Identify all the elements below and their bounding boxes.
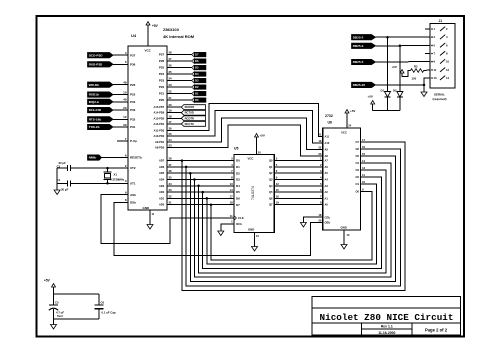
wire XT2 [71,167,129,169]
svg-text:RCRXD: RCRXD [185,105,195,109]
svg-text:DB25-2: DB25-2 [353,35,364,39]
svg-text:2732: 2732 [325,114,333,118]
svg-text:11: 11 [362,173,365,177]
svg-text:U5: U5 [234,147,239,151]
svg-text:+5V: +5V [260,134,265,138]
svg-text:P-Up: P-Up [130,139,137,143]
net flag D5 [192,65,195,70]
J1 pin 7 / pin 8 [431,53,433,55]
svg-text:17: 17 [169,120,173,124]
net flag IRQ2-b [88,99,114,104]
svg-text:O3: O3 [356,168,360,172]
svg-text:31: 31 [169,201,173,205]
net flag D4 [192,72,195,77]
wire AD6 U4 pin 37 to U5 D1 pin 4 [167,166,234,168]
ground for U4 [147,225,153,230]
wire AD2 U4 pin 33 to U5 D5 pin 14 [167,191,234,193]
svg-text:A10: A10 [325,141,330,145]
svg-text:P21: P21 [159,92,165,96]
wire A11 bus U4 pin 36 to U6 pin 21 [167,104,323,137]
svg-text:A11: A11 [325,134,330,138]
svg-text:O6: O6 [356,147,360,151]
J1 pin 9 / pin 10 [431,61,433,63]
svg-text:7.3728MHz: 7.3728MHz [110,178,125,182]
svg-text:D1: D1 [195,92,199,96]
svg-text:C6: C6 [101,300,105,304]
net flag D3 [192,78,195,83]
svg-text:20: 20 [169,103,173,107]
connector J1 body [430,23,455,87]
wire U5 Q2 pin 6 to U6 A5 pin 3 [274,172,323,174]
svg-text:D4: D4 [195,72,199,76]
svg-text:A15-PD7: A15-PD7 [154,105,165,109]
svg-text:U6: U6 [328,121,333,125]
wire U4 P23 pin 24 to flag D3 [167,80,192,82]
svg-text:+5V: +5V [44,279,51,283]
wire U4 A15-PD7 pin 20 to flag RCRXD [167,106,181,108]
svg-text:17: 17 [362,138,366,142]
net flag DB25-2 [352,35,376,40]
svg-text:10: 10 [362,180,366,184]
wire +5V to R2 [402,71,411,77]
wire AD7 U4 pin 38 to U5 D0 pin 3 [167,160,234,162]
net flag D2 [192,85,195,90]
net flag DB25-3 [352,43,376,48]
svg-text:GND: GND [248,228,254,232]
svg-text:A7: A7 [325,159,329,163]
svg-text:22: 22 [318,145,322,149]
wire U4 P20 pin 21 to flag D0 [167,99,192,101]
svg-text:J1: J1 [439,19,443,23]
svg-text:21: 21 [318,132,322,136]
CPU U4 Z863103 body [128,46,167,210]
svg-text:33: 33 [169,188,173,192]
svg-text:Page 2 of 2: Page 2 of 2 [425,328,448,333]
wire AD4 U4 pin 35 to U5 D3 pin 8 [167,179,234,181]
wire U5 Q1 pin 5 to U6 A6 pin 2 [274,166,323,168]
net flag TXD-2b wire to U4 pin 30 [113,126,128,128]
svg-text:14: 14 [230,188,234,192]
svg-text:C5: C5 [55,300,59,304]
wire U5 Q4 pin 12 to U6 A3 pin 5 [274,185,323,187]
capacitor C4 30pF [66,180,68,186]
capacitor C3 30pF [66,165,68,171]
ground for U6 [341,245,347,250]
svg-text:A8: A8 [325,154,329,158]
svg-text:Nicolet Z80 NICE Circuit: Nicolet Z80 NICE Circuit [320,312,454,323]
ground for crystal caps [54,190,60,195]
svg-text:Q0: Q0 [269,159,273,163]
svg-text:O2: O2 [356,175,360,179]
svg-text:C3: C3 [57,164,61,168]
power +5V for U5 [256,137,258,155]
svg-text:A8-PD0: A8-PD0 [155,146,165,150]
svg-text:XT2: XT2 [130,166,136,170]
wire diode rail to +5V [373,110,400,112]
power +5V for diodes [371,101,375,105]
J1 pin 11 / pin 12 [431,69,433,71]
svg-text:36: 36 [169,127,173,131]
svg-text:D7: D7 [236,203,240,207]
capacitor C5 4.7uF Tant [53,294,55,305]
svg-text:Rev 1.1: Rev 1.1 [381,325,393,329]
J1 pin 1 / pin 2 [431,28,433,30]
ground for U5 OCb [218,231,224,236]
wire diode D1 tap [386,36,389,39]
svg-text:RXD-P3D: RXD-P3D [89,62,103,66]
svg-text:P26: P26 [159,59,165,63]
wire U5 Q3 pin 9 to U6 A4 pin 4 [274,179,323,181]
wire U4 P22 pin 23 to flag D2 [167,86,192,88]
svg-text:AD7: AD7 [159,159,165,163]
net flag RXD-P3D wire to U4 pin 5 [113,63,128,65]
svg-text:P34: P34 [130,100,136,104]
title block frame [312,297,461,336]
net flag TXD-2b [88,124,114,129]
svg-text:D5: D5 [195,66,199,70]
wire data bus AD7 to U6 O7 pin 17 [181,159,184,162]
svg-text:D1: D1 [236,165,240,169]
svg-text:D3: D3 [236,178,240,182]
svg-text:O5: O5 [356,154,360,158]
svg-text:O4: O4 [356,161,360,165]
latch U5 74LS374 body [234,155,274,233]
svg-text:10: 10 [123,90,127,94]
svg-text:DSb: DSb [130,200,136,204]
net flag DCD-P3D [88,53,114,58]
svg-text:24: 24 [169,138,173,142]
svg-text:D1: D1 [381,89,385,93]
svg-text:DCD-P3D: DCD-P3D [89,53,104,57]
svg-text:D0: D0 [195,98,199,102]
svg-text:12: 12 [123,115,127,119]
svg-text:13: 13 [230,182,234,186]
net flag D16-24D wire to U4 pin 20 [113,109,128,111]
wire U5 Q7 pin 19 to U6 A0 pin 8 [274,204,323,206]
svg-text:AD6: AD6 [159,165,165,169]
net flag RCDTR [181,116,205,121]
svg-text:P25: P25 [130,93,136,97]
wire data bus AD0 to U6 O0 pin 9 [210,203,213,206]
svg-text:RXD1b: RXD1b [89,93,99,97]
svg-text:A11-PD3: A11-PD3 [154,129,165,133]
svg-text:A12-PD4: A12-PD4 [154,122,165,126]
net flag WR-Db [88,82,114,87]
svg-text:RCDTR: RCDTR [185,116,194,120]
svg-text:VCC: VCC [341,131,347,135]
svg-text:DB25-3: DB25-3 [353,44,364,48]
wire U5 Q5 pin 15 to U6 A2 pin 6 [274,191,323,193]
svg-text:(required): (required) [433,97,447,101]
svg-text:Q1: Q1 [269,165,273,169]
wire diode D2 tap [399,45,402,48]
svg-text:A4: A4 [325,178,329,182]
svg-text:Q2: Q2 [269,171,273,175]
svg-text:DB25-5: DB25-5 [353,60,364,64]
svg-text:P37: P37 [130,53,136,57]
svg-text:A0: A0 [325,203,329,207]
J1 pin 1 stub [425,28,430,30]
wire A10 bus U4 pin 25 to U6 pin 19 [167,111,323,143]
net flag RTS-16b [88,117,114,122]
wire data bus AD2 to U6 O2 pin 11 [201,191,204,194]
svg-text:Tant: Tant [57,314,63,318]
wire U5 Q0 pin 2 to U6 A7 pin 1 [274,160,323,162]
wire U5 Q6 pin 16 to U6 A1 pin 7 [274,197,323,199]
svg-text:TXD-2b: TXD-2b [89,125,100,129]
ground stub on DB25-20 / J1 pin 13 [423,85,425,92]
J1 pin 7 stub [425,53,430,55]
wire U4 P21 pin 22 to flag D1 [167,93,192,95]
svg-text:A9-PD1: A9-PD1 [155,140,165,144]
svg-text:49: 49 [123,98,127,102]
svg-text:DB25-20: DB25-20 [353,83,366,87]
svg-text:22: 22 [169,90,173,94]
svg-text:P26: P26 [130,83,136,87]
svg-text:13: 13 [434,76,438,80]
svg-text:24: 24 [169,77,173,81]
svg-text:A5: A5 [325,171,329,175]
svg-text:U4: U4 [131,33,137,38]
svg-text:P24: P24 [159,72,165,76]
wire AD1 U4 pin 32 to U5 D6 pin 17 [167,197,234,199]
crystal X1 7.3728MHz [107,168,109,172]
net flag RCRXD [181,105,205,110]
svg-text:D4: D4 [236,184,240,188]
net flag RTS-16b wire to U4 pin 12 [113,118,128,120]
svg-text:D6: D6 [195,59,199,63]
wire U4 P24 pin 25 to flag D4 [167,73,192,75]
svg-text:VCC: VCC [145,49,152,53]
svg-text:25: 25 [169,132,173,136]
svg-text:14: 14 [446,76,450,80]
svg-text:NMIb: NMIb [89,156,97,160]
ground for U6 CEb [300,223,306,228]
net flag D7 [192,52,195,57]
svg-text:D2: D2 [393,89,397,93]
svg-text:AD1: AD1 [159,196,165,200]
J1 pin 13 / pin 14 [431,77,433,79]
svg-text:150: 150 [412,77,417,81]
svg-text:P27: P27 [159,53,165,57]
wire cap common [56,168,58,190]
svg-text:0.1 uF Cap: 0.1 uF Cap [102,311,116,315]
svg-text:37: 37 [169,163,173,167]
svg-text:OEb: OEb [325,221,331,225]
svg-text:GND: GND [143,206,151,210]
svg-text:14: 14 [362,159,366,163]
svg-text:19: 19 [276,201,280,205]
wire cap rail bottom [54,318,100,320]
wire DB25-5 to J1 pin 9 [376,61,431,63]
svg-text:AD5: AD5 [159,171,165,175]
svg-text:23: 23 [169,83,173,87]
capacitor C6 0.1uF [98,294,100,305]
wire data bus AD4 to U6 O4 pin 14 [193,178,196,181]
svg-text:11-16-2000: 11-16-2000 [378,331,395,335]
wire DB25-2 to J1 pin 3 [376,36,431,38]
wire XT1 [71,182,129,184]
svg-text:+5V: +5V [392,65,397,69]
svg-text:VCC: VCC [248,157,254,161]
svg-text:CEb: CEb [325,215,331,219]
svg-text:48: 48 [123,81,127,85]
svg-text:AD0: AD0 [159,203,165,207]
svg-text:P32: P32 [130,117,136,121]
wire cap rail top [54,293,100,295]
svg-text:27: 27 [169,57,173,61]
svg-text:Q4: Q4 [269,184,273,188]
svg-text:SERIAL: SERIAL [434,93,445,97]
svg-text:RTS-16b: RTS-16b [89,117,102,121]
J1 pin 5 / pin 6 [431,45,433,47]
svg-text:AD4: AD4 [159,178,165,182]
svg-text:IRQ2-b: IRQ2-b [89,100,99,104]
svg-text:WR-Db: WR-Db [89,83,99,87]
svg-text:D3: D3 [195,79,199,83]
svg-text:P31: P31 [130,125,136,129]
svg-text:10: 10 [446,60,450,64]
svg-text:ASb: ASb [130,193,136,197]
svg-text:AD2: AD2 [159,190,165,194]
svg-text:4K Internal ROM: 4K Internal ROM [163,34,195,39]
net flag WR-Db wire to U4 pin 48 [113,84,128,86]
svg-text:P25: P25 [159,66,165,70]
wire data bus AD3 to U6 O3 pin 13 [197,185,200,188]
net flag RCCTS [181,122,205,127]
wire U4 A13-PD5 pin 18 to flag RCDTR [167,117,181,119]
svg-text:RCTXD: RCTXD [185,111,194,115]
sheet border [37,16,465,337]
svg-text:A14-PD6: A14-PD6 [154,111,165,115]
net flag RXD1b [88,92,114,97]
net flag DB25-5 [352,59,376,64]
svg-text:23: 23 [318,152,322,156]
net flag DB25-20 [352,82,376,87]
svg-text:23: 23 [169,144,173,148]
svg-text:P22: P22 [159,85,165,89]
net flag RXD-P3D [88,62,114,67]
ground for caps [51,325,57,330]
net flag RXD1b wire to U4 pin 10 [113,94,128,96]
svg-text:RCCTS: RCCTS [185,122,194,126]
svg-text:A9: A9 [325,147,329,151]
svg-text:A2: A2 [325,190,329,194]
power +5V for U6 [346,113,348,128]
svg-text:16: 16 [362,145,366,149]
wire AD3 U4 pin 34 to U5 D4 pin 13 [167,185,234,187]
svg-text:O0: O0 [356,189,360,193]
svg-text:12: 12 [276,182,280,186]
wire U4 A12-PD4 pin 17 to flag RCCTS [167,123,181,125]
svg-text:28: 28 [169,51,173,55]
svg-text:32: 32 [169,194,173,198]
svg-text:D0: D0 [236,159,240,163]
svg-text:R2: R2 [414,65,418,69]
svg-text:19: 19 [318,139,322,143]
wire U4 P25 pin 26 to flag D5 [167,67,192,69]
svg-text:38: 38 [169,157,173,161]
svg-text:16: 16 [276,194,280,198]
wire data bus AD5 to U6 O5 pin 15 [189,172,192,175]
svg-text:P20: P20 [159,98,165,102]
svg-text:P23: P23 [159,79,165,83]
svg-text:A6: A6 [325,165,329,169]
svg-text:GND: GND [341,226,347,230]
svg-text:20: 20 [123,106,127,110]
net flag D1 [192,91,195,96]
svg-text:74LS374: 74LS374 [251,186,255,200]
wire U4 P26 pin 27 to flag D6 [167,60,192,62]
net flag RCTXD [181,110,205,115]
svg-text:Z863103: Z863103 [163,27,180,32]
net flag IRQ2-b wire to U4 pin 49 [113,101,128,103]
svg-text:30: 30 [123,123,127,127]
svg-text:21: 21 [169,96,173,100]
J1 pin 3 / pin 4 [431,36,433,38]
svg-text:CLK: CLK [238,216,244,220]
svg-text:18: 18 [169,114,173,118]
svg-text:Q3: Q3 [269,178,273,182]
svg-text:A13-PD5: A13-PD5 [154,116,165,120]
svg-text:25: 25 [169,70,173,74]
EPROM U6 2732 body [323,128,361,230]
net flag D0 [192,98,195,103]
svg-text:A1: A1 [325,196,329,200]
svg-text:36: 36 [169,169,173,173]
ground for U5 [252,247,258,252]
wire DB25-20 to J1 pin 13 [376,78,431,85]
wire AD5 U4 pin 36 to U5 D2 pin 7 [167,172,234,174]
wire U4 A14-PD6 pin 19 to flag RCTXD [167,112,181,114]
svg-text:D7: D7 [195,53,199,57]
svg-text:+5V: +5V [152,24,159,28]
svg-text:35: 35 [169,176,173,180]
wire R2 to J1 pin 11 [424,69,430,72]
wire U4 P27 pin 28 to flag D7 [167,54,192,56]
svg-text:15: 15 [276,188,280,192]
svg-text:O7: O7 [356,140,360,144]
svg-text:O1: O1 [356,182,360,186]
svg-text:18: 18 [318,213,322,217]
svg-text:26: 26 [169,64,173,68]
wire A8 bus U4 pin 23 to U6 pin 23 [167,125,323,156]
svg-text:P36: P36 [130,62,136,66]
svg-text:30 pF: 30 pF [61,188,69,192]
svg-text:19: 19 [169,109,173,113]
U4 pin 7 P-Up stub [117,140,128,142]
svg-text:A10-PD2: A10-PD2 [154,134,165,138]
svg-text:20: 20 [318,219,322,223]
svg-text:XT1: XT1 [130,181,136,185]
svg-text:+5V: +5V [368,95,373,99]
svg-text:D2: D2 [236,171,240,175]
svg-text:AD3: AD3 [159,184,165,188]
svg-text:17: 17 [230,194,234,198]
net flag NMIb / RESETb pin 6 [102,157,129,159]
svg-text:13: 13 [362,166,366,170]
svg-text:RESETb: RESETb [130,156,142,160]
svg-text:X1: X1 [114,172,118,176]
svg-text:D5: D5 [236,190,240,194]
svg-text:11: 11 [230,214,233,218]
net flag D6 [192,59,195,64]
svg-text:OCb: OCb [236,222,242,226]
power +5V for U4 [147,25,149,46]
svg-text:P33: P33 [130,108,136,112]
svg-text:+5V: +5V [350,109,355,113]
wire data bus AD1 to U6 O1 pin 10 [206,197,209,200]
